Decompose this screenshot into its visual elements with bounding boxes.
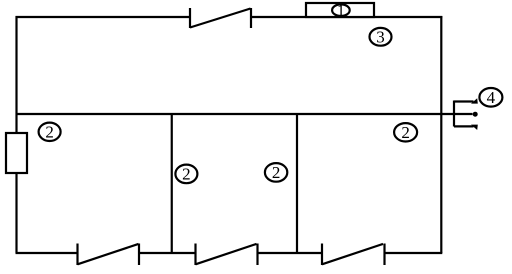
energy meter box U1 xyxy=(306,3,374,17)
svg-text:2: 2 xyxy=(401,123,410,142)
label circle 2 (third branch) xyxy=(265,163,287,182)
switch S4 (bottom right, open) xyxy=(322,244,385,266)
wire: bottom side segment c xyxy=(258,252,323,254)
svg-text:1: 1 xyxy=(337,2,345,19)
svg-text:3: 3 xyxy=(376,27,385,46)
wire: right side xyxy=(440,16,442,253)
wire: left side lower segment xyxy=(15,173,17,253)
wire: bottom side segment d xyxy=(385,252,443,254)
wire: left side upper segment xyxy=(15,16,17,133)
label circle 3 xyxy=(370,27,392,46)
wire: bottom side segment a xyxy=(16,252,78,254)
wire: middle horizontal bus xyxy=(16,113,473,115)
socket bottom prong tip xyxy=(471,125,478,130)
switch S2 (bottom left, open) xyxy=(78,244,140,266)
resistor R1 (left branch) xyxy=(6,133,27,173)
socket top prong xyxy=(454,100,474,102)
socket bottom prong xyxy=(454,125,474,127)
svg-text:2: 2 xyxy=(45,122,54,141)
label circle 2 (left branch) xyxy=(39,122,61,141)
wire: top side right segment xyxy=(251,16,442,18)
svg-text:2: 2 xyxy=(182,165,191,184)
svg-text:4: 4 xyxy=(487,88,496,107)
label circle 1 xyxy=(332,2,350,19)
svg-text:2: 2 xyxy=(272,163,281,182)
wire: bottom side segment b xyxy=(139,252,196,254)
switch S3 (bottom middle, open) xyxy=(196,244,258,266)
socket top prong tip xyxy=(471,98,478,103)
switch S1 (top, open knife switch) xyxy=(190,8,251,28)
socket middle prong tip (node) xyxy=(473,112,478,117)
label circle 2 (second branch) xyxy=(175,165,197,184)
wire: top side left segment xyxy=(16,16,191,18)
wire: branch divider 2 xyxy=(296,114,298,253)
label circle 2 (right branch) xyxy=(394,123,417,142)
wire: branch divider 1 xyxy=(171,114,173,253)
label circle 4 xyxy=(479,88,502,107)
three-pin socket X1: bracket bar xyxy=(453,101,455,127)
